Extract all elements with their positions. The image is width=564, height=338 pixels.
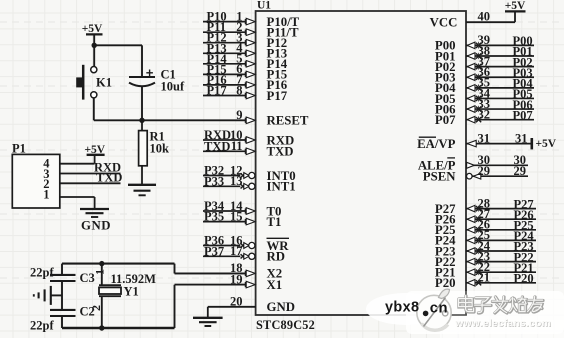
svg-text:40: 40	[478, 9, 491, 23]
svg-text:22pf: 22pf	[30, 319, 54, 333]
svg-text:P17: P17	[267, 89, 288, 103]
svg-text:U1: U1	[257, 0, 271, 12]
svg-text:11: 11	[231, 139, 243, 153]
svg-text:C2: C2	[80, 305, 95, 319]
svg-text:10uf: 10uf	[161, 80, 185, 94]
svg-text:VCC: VCC	[430, 16, 458, 30]
svg-text:RESET: RESET	[267, 114, 309, 128]
svg-text:INT1: INT1	[267, 180, 296, 194]
svg-text:29: 29	[514, 164, 527, 178]
svg-text:P07: P07	[513, 108, 533, 122]
svg-text:17: 17	[230, 244, 243, 258]
svg-text:10k: 10k	[150, 142, 170, 156]
svg-text:8: 8	[236, 83, 242, 97]
svg-text:P17: P17	[207, 84, 227, 98]
svg-text:P20: P20	[435, 276, 456, 290]
svg-text:P07: P07	[435, 113, 456, 127]
svg-text:P20: P20	[514, 272, 534, 286]
svg-text:P1: P1	[12, 142, 26, 156]
svg-text:P37: P37	[204, 244, 224, 258]
svg-text:1: 1	[43, 188, 49, 202]
svg-text:GND: GND	[81, 219, 111, 233]
svg-text:29: 29	[478, 164, 491, 178]
svg-text:31: 31	[478, 131, 491, 145]
svg-text:K1: K1	[96, 76, 112, 90]
svg-text:C3: C3	[80, 271, 95, 285]
svg-text:15: 15	[230, 209, 243, 223]
svg-text:ybx8: ybx8	[385, 300, 419, 316]
svg-text:TXD: TXD	[204, 139, 230, 153]
svg-text:P33: P33	[204, 174, 224, 188]
svg-text:Y1: Y1	[124, 285, 139, 299]
svg-text:P35: P35	[204, 210, 224, 224]
svg-text:www.elecfans.com: www.elecfans.com	[454, 319, 551, 330]
svg-text:TXD: TXD	[96, 171, 122, 185]
svg-text:cn: cn	[430, 301, 448, 317]
svg-text:TXD: TXD	[267, 145, 294, 159]
svg-text:PSEN: PSEN	[423, 170, 456, 184]
svg-text:+5V: +5V	[536, 138, 557, 150]
svg-text:GND: GND	[267, 300, 295, 314]
svg-text:13: 13	[230, 174, 243, 188]
svg-text:31: 31	[515, 131, 528, 145]
svg-text:22pf: 22pf	[30, 266, 54, 280]
svg-text:X1: X1	[267, 278, 283, 292]
svg-text:+5V: +5V	[505, 0, 526, 12]
svg-text:RD: RD	[267, 250, 285, 264]
svg-text:STC89C52: STC89C52	[256, 318, 315, 332]
svg-text:EA/VP: EA/VP	[417, 137, 456, 151]
svg-text:T1: T1	[267, 215, 282, 229]
